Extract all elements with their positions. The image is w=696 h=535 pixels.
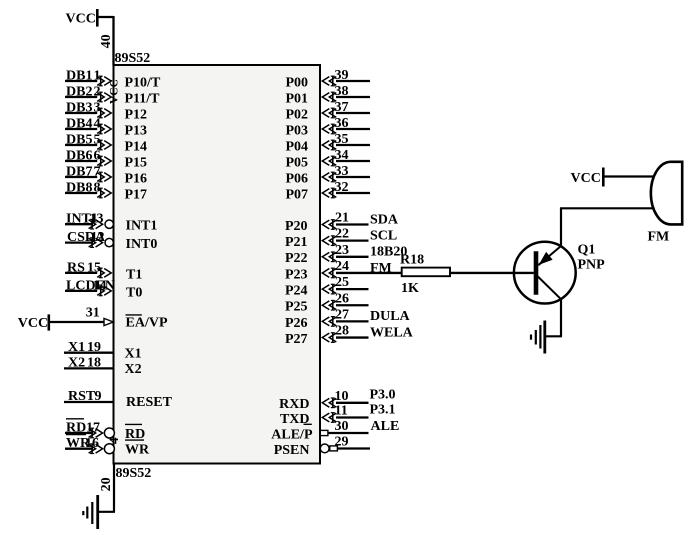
Q1 base bar [534, 251, 539, 294]
pin 37 P02 [285, 100, 370, 123]
pin 29 PSEN [274, 435, 370, 458]
wire Q1 emitter to speaker [560, 208, 654, 246]
pin 6 DB6 (P15) [65, 149, 147, 171]
svg-text:P12: P12 [125, 107, 148, 122]
pin 24 P23 [285, 259, 402, 282]
svg-text:T0: T0 [126, 285, 142, 300]
svg-text:26: 26 [335, 291, 349, 306]
svg-text:8: 8 [94, 181, 101, 196]
svg-text:9: 9 [95, 389, 102, 404]
svg-text:INT0: INT0 [126, 237, 158, 252]
pin 14 LCDEN (T0) [65, 278, 142, 300]
pin 16 WR [65, 435, 150, 458]
wire VCC to speaker [603, 175, 654, 177]
svg-text:4: 4 [106, 437, 121, 444]
svg-text:DB4: DB4 [66, 117, 92, 132]
svg-text:38: 38 [335, 84, 349, 99]
power VCC (speaker) [571, 168, 604, 187]
wire pin 20 to ground [98, 464, 115, 512]
svg-text:FM: FM [370, 261, 392, 276]
svg-text:ALE/P: ALE/P [271, 427, 313, 442]
svg-text:P3.1: P3.1 [370, 402, 396, 417]
speaker FM [651, 162, 682, 225]
svg-text:15: 15 [87, 260, 101, 275]
svg-text:T1: T1 [126, 267, 142, 282]
pin 13 INT1 [65, 212, 157, 234]
Q1 emitter (arrow to base) [538, 246, 561, 265]
svg-text:17: 17 [86, 421, 100, 436]
svg-text:RD: RD [66, 421, 86, 436]
pin 27 P26 [285, 307, 411, 330]
wire VCC to pin 40 [97, 16, 113, 66]
pin 17 RD [65, 419, 145, 442]
svg-text:24: 24 [335, 259, 349, 274]
svg-text:32: 32 [335, 180, 349, 195]
svg-text:DB6: DB6 [66, 149, 92, 164]
svg-text:VCC: VCC [108, 79, 120, 104]
svg-text:P03: P03 [285, 123, 308, 138]
svg-text:31: 31 [86, 306, 100, 321]
svg-text:DB1: DB1 [66, 69, 92, 84]
svg-text:23: 23 [335, 243, 349, 258]
pin 25 P24 [285, 275, 369, 298]
svg-text:40: 40 [99, 34, 114, 48]
svg-text:P13: P13 [125, 123, 148, 138]
svg-text:P06: P06 [285, 171, 308, 186]
svg-text:12: 12 [91, 230, 105, 245]
svg-text:P10/T: P10/T [125, 75, 161, 90]
pin 2 DB2 (P11) [65, 85, 160, 107]
svg-text:EA/VP: EA/VP [126, 316, 168, 331]
svg-text:6: 6 [94, 149, 101, 164]
svg-text:P27: P27 [285, 332, 308, 347]
pin 1 DB1 (P10) [65, 69, 161, 91]
svg-text:RST: RST [68, 389, 96, 404]
power VCC (pin 31) [18, 314, 49, 331]
wire VCC to pin 31 [49, 321, 104, 323]
svg-text:P05: P05 [285, 155, 308, 170]
svg-text:INT1: INT1 [126, 219, 158, 234]
svg-text:P16: P16 [125, 171, 148, 186]
pin 36 P03 [285, 116, 370, 139]
Q1 collector diagonal [538, 276, 561, 299]
svg-text:X1: X1 [125, 346, 142, 361]
svg-text:P24: P24 [285, 284, 308, 299]
svg-text:X2: X2 [68, 355, 85, 370]
pin 23 P22 [285, 243, 407, 266]
pin 15 RS (T1) [65, 260, 142, 282]
svg-text:DB3: DB3 [66, 101, 92, 116]
svg-text:P3.0: P3.0 [370, 387, 396, 402]
pin 33 P06 [285, 164, 370, 187]
pin 18 X2 [64, 355, 142, 377]
svg-text:PSEN: PSEN [274, 443, 310, 458]
pin 22 P21 [285, 227, 397, 250]
svg-text:P11/T: P11/T [125, 91, 161, 106]
svg-text:20: 20 [99, 477, 114, 491]
svg-text:P00: P00 [285, 75, 308, 90]
svg-text:WR: WR [125, 443, 150, 458]
svg-text:DB7: DB7 [66, 165, 92, 180]
svg-text:16: 16 [85, 436, 99, 451]
svg-text:4: 4 [94, 117, 101, 132]
svg-text:37: 37 [335, 100, 349, 115]
svg-text:P23: P23 [285, 267, 308, 282]
svg-text:RS: RS [67, 260, 85, 275]
pin 4 DB4 (P13) [65, 117, 147, 139]
svg-text:SCL: SCL [370, 228, 397, 243]
svg-text:RESET: RESET [126, 395, 173, 410]
svg-text:LCDEN: LCDEN [66, 278, 115, 293]
svg-text:VCC: VCC [66, 12, 96, 27]
svg-text:P22: P22 [285, 251, 308, 266]
svg-text:10: 10 [335, 389, 349, 404]
svg-text:2: 2 [94, 85, 101, 100]
pin 39 P00 [285, 68, 370, 91]
pin 32 P07 [285, 180, 370, 203]
pin 35 P04 [285, 132, 370, 155]
svg-text:18: 18 [87, 355, 101, 370]
ground (Q1) [531, 321, 545, 354]
svg-text:33: 33 [335, 164, 349, 179]
svg-text:25: 25 [335, 275, 349, 290]
power VCC (pin 40) [66, 9, 98, 27]
pin 11 TXD (P3.1) [280, 402, 396, 427]
svg-text:WELA: WELA [370, 325, 414, 340]
pin 10 RXD (P3.0) [279, 387, 395, 412]
svg-text:14: 14 [93, 278, 107, 293]
wire R18 to Q1 base [450, 272, 534, 274]
pin 9 RST (RESET) [64, 389, 173, 410]
svg-text:21: 21 [335, 211, 349, 226]
pin 30 ALE/P [271, 419, 399, 442]
svg-text:PNP: PNP [578, 257, 606, 272]
svg-text:P14: P14 [125, 139, 148, 154]
pin 3 DB3 (P12) [65, 101, 147, 123]
svg-text:P26: P26 [285, 316, 308, 331]
svg-text:VCC: VCC [571, 171, 601, 186]
svg-text:34: 34 [335, 148, 349, 163]
svg-text:27: 27 [335, 307, 349, 322]
pin 28 P27 [285, 324, 414, 347]
svg-text:P01: P01 [285, 91, 308, 106]
svg-text:P21: P21 [285, 235, 308, 250]
svg-text:FM: FM [648, 229, 670, 244]
svg-text:36: 36 [335, 116, 349, 131]
chip U1 89S52 body [114, 65, 321, 464]
svg-text:1K: 1K [401, 281, 419, 296]
svg-text:5: 5 [94, 133, 101, 148]
svg-text:DB8: DB8 [66, 181, 92, 196]
svg-text:89S52: 89S52 [116, 466, 152, 481]
svg-text:X2: X2 [125, 362, 142, 377]
svg-text:DB5: DB5 [66, 133, 92, 148]
svg-text:P25: P25 [285, 300, 308, 315]
pin 12 CSDA (INT0) [65, 230, 157, 252]
svg-text:P07: P07 [285, 187, 308, 202]
svg-text:3: 3 [94, 101, 101, 116]
svg-text:29: 29 [335, 435, 349, 450]
pin 38 P01 [285, 84, 370, 107]
svg-text:P15: P15 [125, 155, 148, 170]
svg-text:P17: P17 [125, 187, 148, 202]
transistor Q1 circle [514, 242, 576, 304]
pin 31 EA/VP [86, 306, 168, 331]
svg-text:P04: P04 [285, 139, 308, 154]
svg-text:11: 11 [335, 404, 348, 419]
svg-text:RXD: RXD [279, 397, 309, 412]
svg-text:SDA: SDA [370, 212, 399, 227]
svg-text:19: 19 [87, 340, 101, 355]
pin 19 X1 [64, 340, 142, 361]
svg-text:35: 35 [335, 132, 349, 147]
svg-text:P20: P20 [285, 219, 308, 234]
ground (pin 20) [83, 495, 97, 529]
svg-text:13: 13 [90, 212, 104, 227]
svg-text:P02: P02 [285, 107, 308, 122]
svg-text:DULA: DULA [370, 309, 411, 324]
pin 21 P20 [285, 211, 399, 234]
svg-text:Q1: Q1 [578, 242, 596, 257]
pin 34 P05 [285, 148, 370, 171]
svg-text:ALE: ALE [371, 419, 400, 434]
svg-text:39: 39 [335, 68, 349, 83]
pin 26 P25 [285, 291, 369, 314]
svg-text:R18: R18 [400, 252, 424, 267]
svg-text:X1: X1 [68, 340, 85, 355]
svg-text:30: 30 [335, 419, 349, 434]
svg-text:7: 7 [94, 165, 101, 180]
wire Q1 collector to ground [545, 300, 562, 337]
svg-text:VCC: VCC [18, 316, 48, 331]
pin 7 DB7 (P16) [65, 165, 147, 187]
pin 8 DB8 (P17) [65, 181, 147, 203]
svg-text:28: 28 [335, 324, 349, 339]
resistor R18 [402, 268, 450, 277]
svg-text:1: 1 [94, 69, 101, 84]
pin 5 DB5 (P14) [65, 133, 147, 155]
svg-text:DB2: DB2 [66, 85, 92, 100]
svg-text:22: 22 [335, 227, 349, 242]
svg-text:89S52: 89S52 [115, 51, 151, 66]
